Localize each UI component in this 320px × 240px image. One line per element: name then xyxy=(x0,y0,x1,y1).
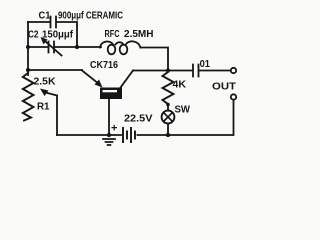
inductor RFC 2.5MH xyxy=(100,41,141,47)
svg-text:R1: R1 xyxy=(37,101,50,113)
node B dot xyxy=(75,45,79,49)
R1 wiper line xyxy=(46,93,58,96)
wire base line left xyxy=(28,69,82,71)
capacitor C1 xyxy=(51,17,57,28)
wire to OUT terminal 1 xyxy=(200,70,231,72)
wire right rail down xyxy=(138,100,234,135)
resistor R2 4K xyxy=(163,72,174,104)
C2 arrowhead xyxy=(41,37,48,45)
wire C1 branch top xyxy=(28,21,50,23)
capacitor C2 (variable) xyxy=(49,42,55,53)
wire C2 branch right xyxy=(55,46,77,48)
R1 wiper arrowhead xyxy=(40,89,49,97)
R1 wiper wire down xyxy=(56,96,58,136)
wire C1 to corner xyxy=(57,22,77,47)
capacitor C3 .01 xyxy=(193,65,199,77)
svg-text:150μμf: 150μμf xyxy=(42,29,73,41)
node A dot xyxy=(26,45,30,49)
wire C2 branch left xyxy=(28,46,48,48)
svg-text:CK716: CK716 xyxy=(90,59,118,71)
svg-text:SW: SW xyxy=(175,105,191,116)
node lamp-top dot xyxy=(166,103,170,107)
terminal OUT bottom xyxy=(231,94,236,99)
ground symbol xyxy=(103,139,115,145)
Q1 emitter arrowhead xyxy=(95,80,103,88)
transistor Q1 collector lead xyxy=(121,71,134,88)
svg-text:OUT: OUT xyxy=(212,81,237,93)
svg-text:RFC: RFC xyxy=(105,28,120,40)
svg-text:900μμf CERAMIC: 900μμf CERAMIC xyxy=(58,10,123,22)
wire bottom rail left of battery xyxy=(57,134,121,136)
lamp SW leads xyxy=(167,104,169,135)
lamp SW circle xyxy=(162,111,175,124)
svg-text:+: + xyxy=(111,123,117,135)
transistor Q1 emitter lead xyxy=(82,71,99,85)
svg-text:2.5MH: 2.5MH xyxy=(124,28,154,40)
battery B1 22.5V xyxy=(123,128,135,142)
node collector dot xyxy=(166,68,170,72)
C2 arrow xyxy=(46,42,62,56)
node lamp-bottom dot xyxy=(166,133,170,137)
wire RFC to corner down xyxy=(141,48,169,71)
resistor R1 2.5K xyxy=(23,73,34,121)
svg-text:2.5K: 2.5K xyxy=(34,76,56,88)
wire base down xyxy=(108,99,110,135)
transistor Q1 base block xyxy=(100,88,122,100)
wire top-left rail xyxy=(27,22,29,75)
transistor Q1 base block slot xyxy=(103,90,118,92)
inductor loops xyxy=(108,45,116,55)
svg-text:22.5V: 22.5V xyxy=(124,113,153,125)
terminal OUT top xyxy=(231,68,236,73)
svg-text:4K: 4K xyxy=(173,79,187,91)
wire collector line xyxy=(133,70,192,72)
wire node B to RFC xyxy=(77,46,101,48)
svg-text:.01: .01 xyxy=(197,59,210,70)
svg-text:C2: C2 xyxy=(28,29,39,41)
node base-left dot xyxy=(26,68,30,72)
node ground dot xyxy=(107,133,111,137)
svg-text:C1: C1 xyxy=(39,11,51,22)
lamp SW cross xyxy=(164,113,173,122)
